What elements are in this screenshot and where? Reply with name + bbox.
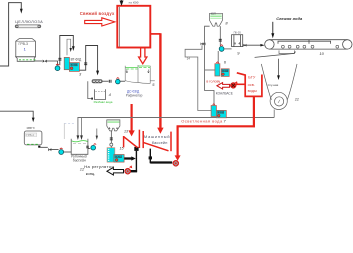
pump P6 [219,45,224,52]
valve basin outlet [86,146,89,148]
conveyor 10 [265,40,352,49]
valve on tank1 outlet [43,60,47,63]
tank GRV-2 feed wire [0,111,33,118]
arrow red into basin1 [128,130,134,136]
block arrow red box to refiner [139,48,147,64]
valve under hopper8 [219,39,222,41]
node basin1 outlet [134,147,138,151]
BGU open tank red [237,73,262,97]
arrow into tank VT [72,46,75,51]
svg-text:Машинный: Машинный [144,135,170,139]
pulper hatched box [107,148,115,162]
arrow into conveyor [260,44,264,47]
valve on riser [58,58,61,60]
refiner stock level green [126,66,151,69]
node basin2 outlet [149,156,152,159]
wire hopper to pulper [110,131,112,148]
wire basin1 discharge black [125,151,137,171]
svg-text:Разбавл.вода: Разбавл.вода [94,100,113,104]
wire P6 to box9 [224,48,231,50]
svg-text:Осветленная вода: Осветленная вода [181,119,223,124]
valve under hopper [110,138,113,140]
svg-text:ВОМД: ВОМД [218,112,225,114]
box 9 press [232,35,243,47]
wire P6 down to tank6 [217,51,219,64]
refiner internals arrows [126,70,128,74]
block arrow v golovu [217,83,230,89]
arrow into box top [120,0,123,5]
wire P5 standpipe [96,129,98,137]
level dashes tank1 [19,59,35,61]
screw feeder (capsule) [92,80,102,83]
svg-text:КВП: КВП [211,12,216,16]
svg-text:КОАЛВАСЕ: КОАЛВАСЕ [216,92,233,96]
hopper 8 top right [210,12,223,27]
arrow down inside funnel [278,59,280,77]
green level [72,141,88,142]
wire red refiner discharge [131,104,133,131]
wire basin to pump P5 [88,148,90,150]
dilution tank (4) [95,89,106,99]
valve red V1 [125,165,133,174]
valve red V3 [230,81,237,88]
basin2 machine basin red [143,131,171,151]
wire gray white-water header [78,118,274,137]
valve after box9 [244,44,247,47]
wire inner U vent [67,39,71,55]
red tick above tank 2b [213,103,215,106]
svg-text:ГРВ-2: ГРВ-2 [26,133,34,137]
left basin (broke pulp) [71,139,88,155]
tank VT-60D (2) [64,57,69,69]
svg-text:14: 14 [187,57,191,61]
wire BOMD-1 to feeder riser [80,46,98,72]
wire red hot air to machine basin (right side) [151,33,161,128]
svg-text:13: 13 [124,129,128,133]
pump P4 [59,148,64,154]
wire basin2 discharge black [150,149,172,163]
hopper (15) mid [107,120,120,131]
wire pump P4 to basin [64,151,71,153]
svg-text:в голову: в голову [206,80,220,84]
tank 2b lower [211,106,216,117]
wire gray snake to tank 2b [185,45,211,110]
svg-text:ГРВ-3: ГРВ-3 [19,42,28,46]
funnel mouth line [255,52,296,58]
arrow fresh water down [272,22,274,35]
pump box BOMD-2b [216,110,226,117]
node at tank2 outlet [38,146,40,148]
svg-text:ВОМД: ВОМД [222,71,228,73]
double valve on left leg [201,42,206,45]
wire feeder to pump P3 [102,80,108,82]
pump P3 [116,78,121,84]
svg-text:на КВФ: на КВФ [129,1,140,5]
arrows into left basin [77,135,80,140]
wire tank1 to pump [35,61,58,65]
svg-text:МВГХ: МВГХ [27,126,35,130]
block arrow to regulator [107,167,124,175]
arrow red into V2 [175,155,181,160]
faint dashed stub [64,122,74,124]
bracket under conveyor [279,50,294,53]
svg-text:БГУ: БГУ [248,74,256,79]
roll feeder under cellulose label [15,25,41,28]
thickener funnel 11 [261,64,297,110]
svg-text:ВТ-60Д: ВТ-60Д [71,58,82,62]
svg-text:бассейн: бассейн [73,159,86,163]
svg-text:На регулятор: На регулятор [84,164,114,169]
wire box9 to conveyor [243,44,262,46]
svg-text:конц.: конц. [86,171,96,176]
wire BGU downpipe red [253,96,255,127]
valve tiny at tank4 inlet [91,98,93,100]
pump P1 [55,64,60,71]
wire cellulose feed top-left [0,3,21,66]
arrow into cellulose [20,9,23,14]
valve red V2 [173,160,179,166]
svg-text:ПК-03: ПК-03 [234,31,242,35]
svg-text:Рафинатор: Рафинатор [126,93,143,97]
refiner (5) open basin [125,65,150,83]
pump box BOMD-6 [221,69,229,77]
valve tank2 outlet [48,148,51,151]
air heater red box [117,6,150,48]
svg-text:10: 10 [319,51,324,56]
pump box BOMD-1 (3) [69,63,79,72]
inner gray edge of red box [118,7,120,47]
wire hopper8 bottom to pump P6 [219,26,221,46]
arrow into feeder [96,71,99,76]
svg-text:Сгу-ная: Сгу-ная [268,83,279,87]
arrow into GRV-2 [32,118,35,123]
svg-text:Свежий воздух: Свежий воздух [80,11,115,16]
svg-text:осв.: осв. [248,82,255,87]
tank 6 [215,64,220,76]
valve on riser2 [84,63,87,65]
svg-text:Свежая вода: Свежая вода [276,16,303,21]
arrow inner U [70,48,72,52]
wire P3 to refiner [120,80,125,82]
basin1 red screen [124,130,140,148]
wire pump P1 riser loop [60,36,74,66]
block arrow fresh air [85,18,115,26]
wire second drop into basin [81,118,83,137]
small circle joint [110,143,113,146]
svg-text:12: 12 [80,166,85,171]
skirt green dashes [27,143,38,145]
svg-text:11: 11 [295,96,299,101]
arrow red down into basin2 [157,128,163,134]
svg-text:ВОМД: ВОМД [115,156,122,158]
svg-text:бассейн: бассейн [152,141,168,145]
wire feeder downcomer to dilution tank [88,81,92,98]
svg-text:воды: воды [248,88,257,93]
tank GRV-2 [24,131,42,145]
wire hopper8 left leg down [205,26,215,105]
wire funnel underflow [273,110,275,118]
wire tank2 to pump [40,146,47,148]
wire red clarified downpipe to V2 [177,126,179,157]
conveyor rollers [282,45,339,48]
valve before P3 [109,80,111,83]
pump P5 [91,144,96,150]
wire red clarified water header [177,125,255,127]
wire valve to BGU [236,83,245,85]
pump box BOMD-3 [114,155,124,163]
arrow black BOMD-3 discharge right [124,156,136,160]
svg-text:ВОМД: ВОМД [71,65,78,67]
svg-text:ЦЕЛЛЮЛОЗА: ЦЕЛЛЮЛОЗА [15,20,43,24]
tank GRV-3 (1) [16,39,36,62]
